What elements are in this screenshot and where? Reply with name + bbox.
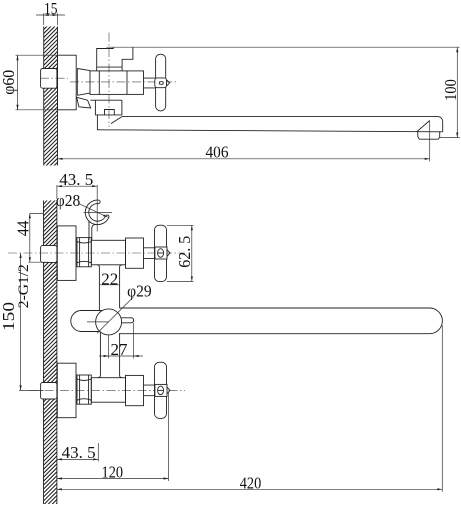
svg-text:62. 5: 62. 5 [175, 236, 194, 268]
svg-text:120: 120 [102, 462, 124, 481]
svg-text:420: 420 [240, 474, 262, 493]
svg-text:43. 5: 43. 5 [62, 443, 96, 462]
svg-text:43. 5: 43. 5 [59, 170, 93, 189]
svg-text:44: 44 [13, 220, 32, 236]
svg-text:406: 406 [206, 142, 229, 161]
svg-text:100: 100 [441, 79, 460, 101]
svg-text:φ29: φ29 [127, 282, 152, 301]
svg-text:φ28: φ28 [56, 191, 81, 210]
svg-text:27: 27 [111, 340, 129, 359]
svg-text:22: 22 [101, 269, 118, 288]
svg-text:φ60: φ60 [0, 70, 18, 95]
svg-text:15: 15 [44, 0, 58, 18]
svg-text:2-G1/2: 2-G1/2 [16, 264, 32, 308]
